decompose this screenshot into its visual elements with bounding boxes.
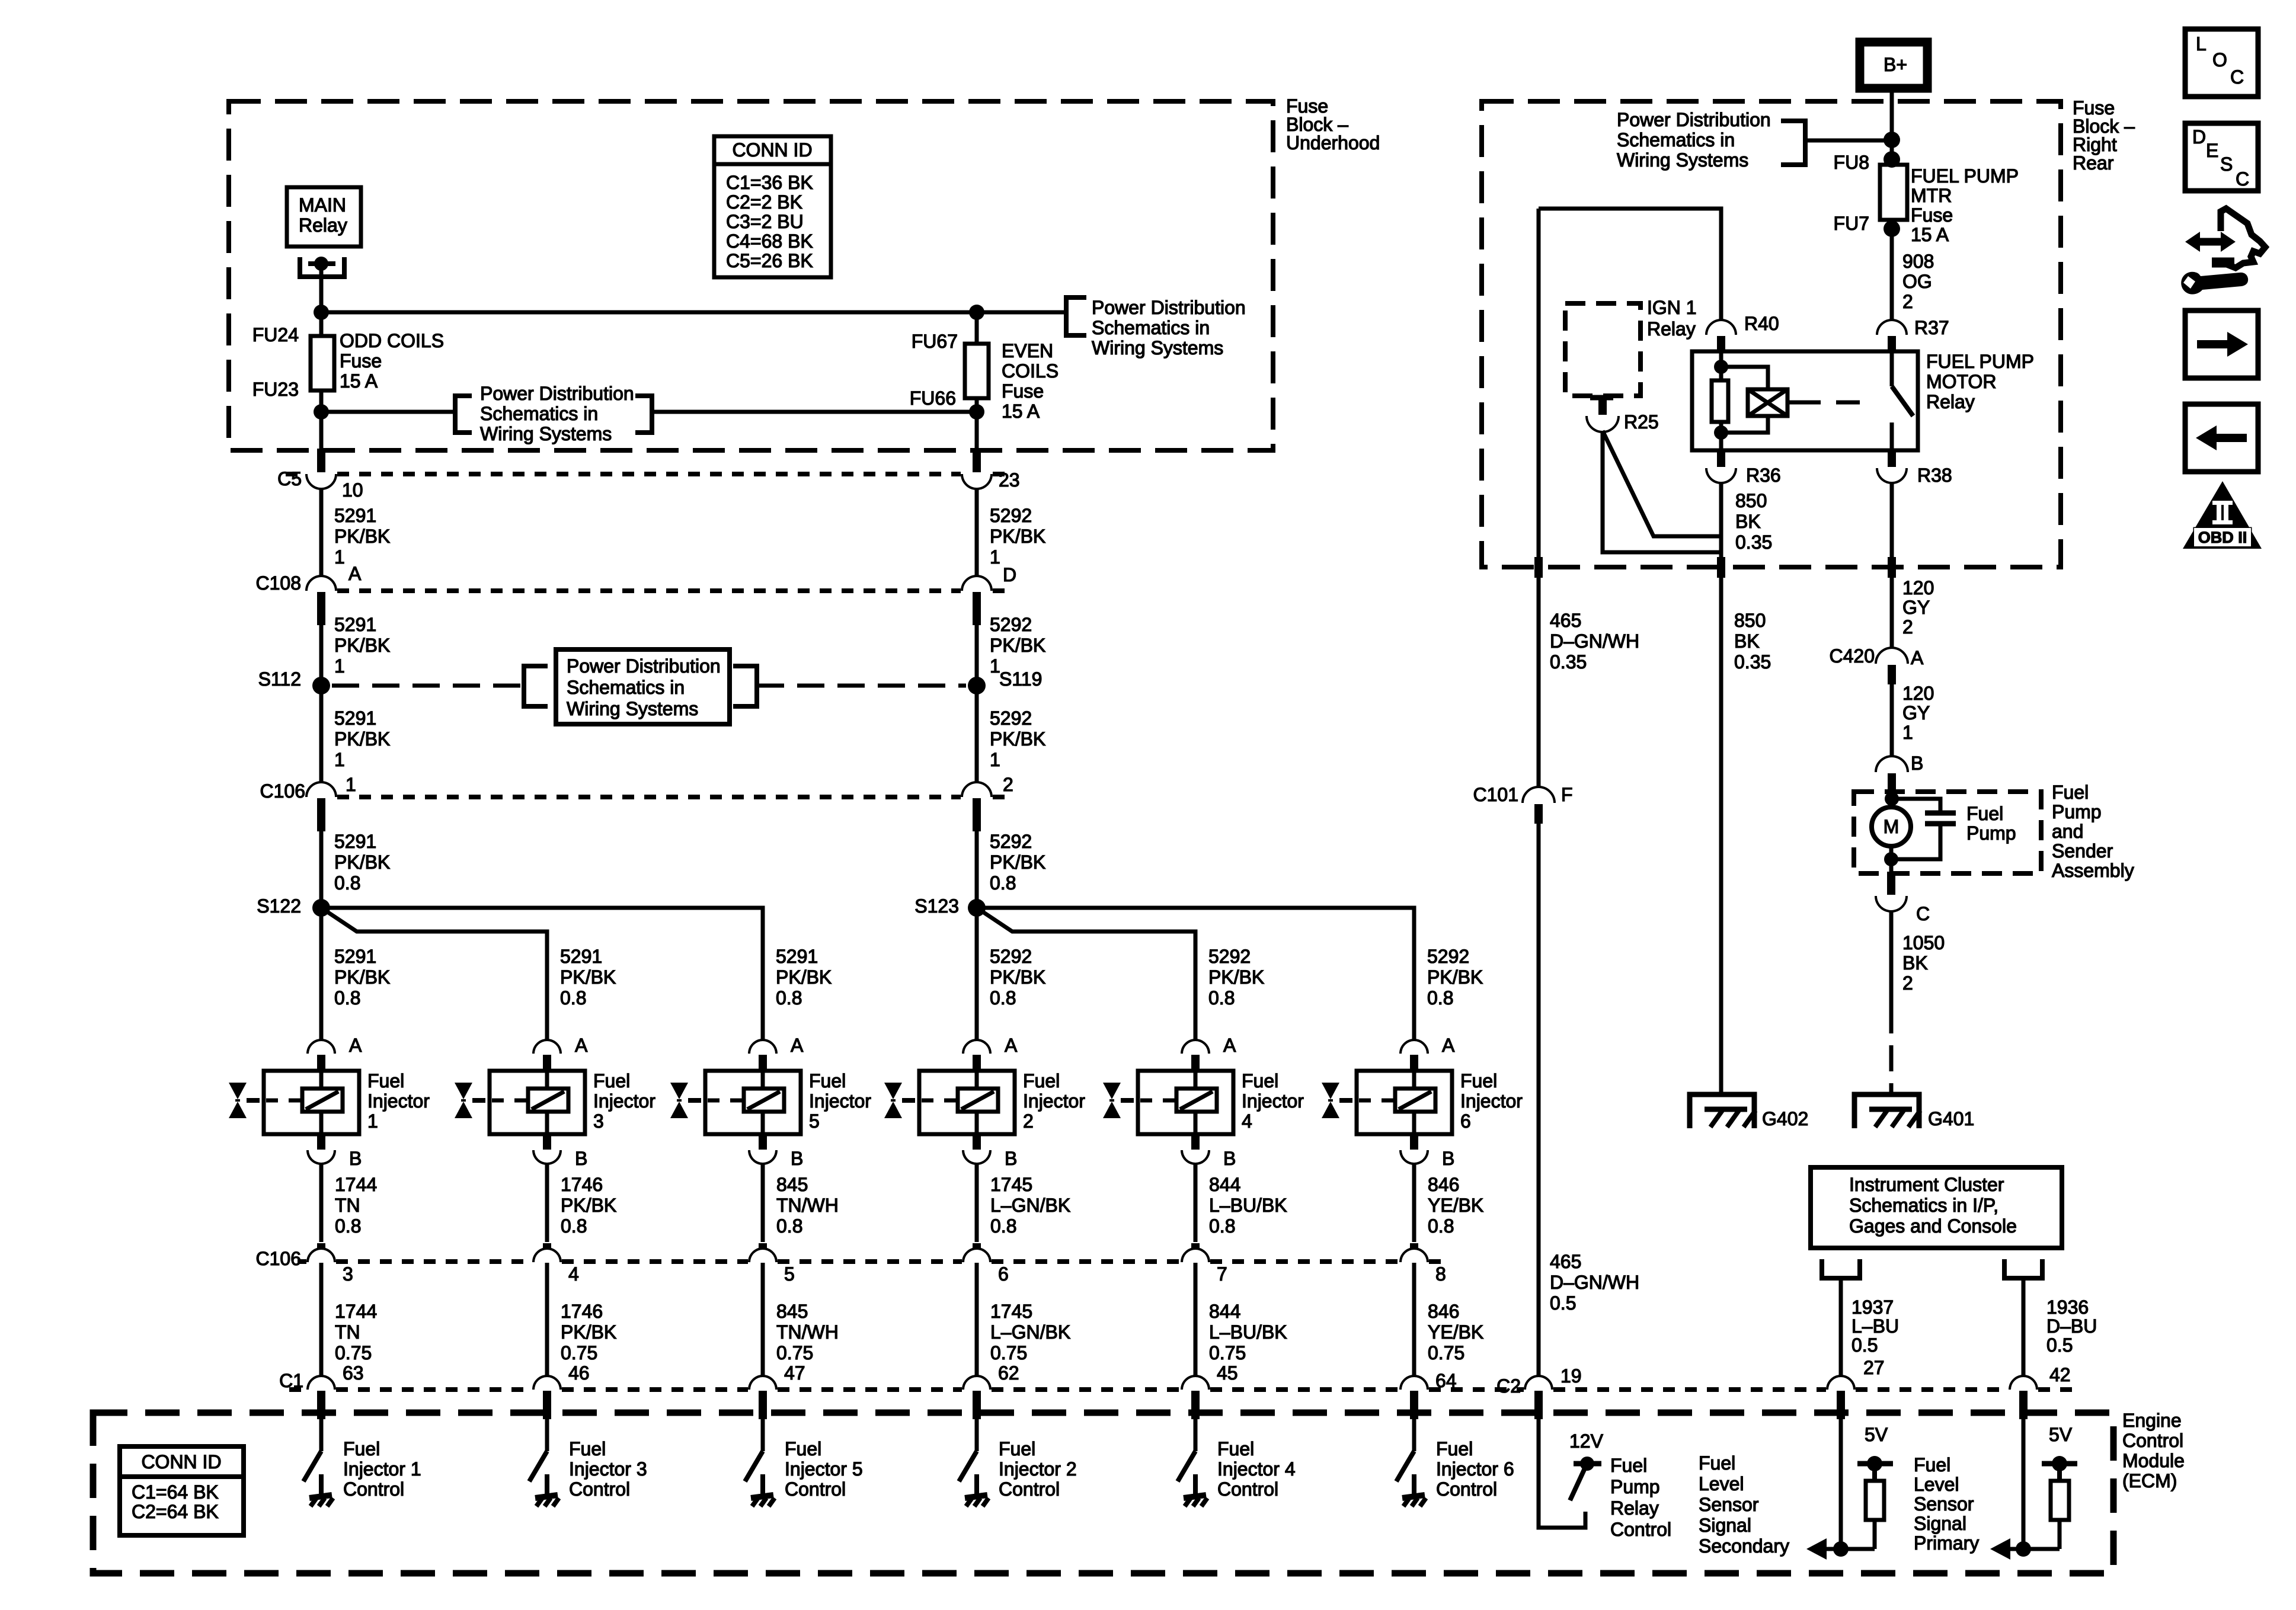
svg-text:PK/BK: PK/BK xyxy=(561,1321,616,1343)
svg-text:FU67: FU67 xyxy=(912,331,958,352)
svg-text:1746: 1746 xyxy=(561,1301,603,1322)
svg-text:GY: GY xyxy=(1902,702,1930,724)
svg-text:B: B xyxy=(575,1148,587,1169)
svg-text:Primary: Primary xyxy=(1914,1532,1979,1554)
svg-text:D–GN/WH: D–GN/WH xyxy=(1550,1272,1639,1293)
svg-text:846: 846 xyxy=(1428,1174,1459,1195)
svg-text:C4=68 BK: C4=68 BK xyxy=(726,231,813,252)
connector C1 pin 46 stub xyxy=(543,1391,551,1419)
svg-text:5291: 5291 xyxy=(334,505,376,526)
connector C106 pin 4 arc xyxy=(535,1250,559,1262)
svg-text:B: B xyxy=(1223,1148,1236,1169)
connector C108 pin A arc xyxy=(308,577,335,591)
svg-text:Injector: Injector xyxy=(1242,1090,1304,1112)
svg-text:PK/BK: PK/BK xyxy=(990,635,1045,656)
svg-text:23: 23 xyxy=(999,469,1020,491)
svg-text:19: 19 xyxy=(1560,1365,1582,1387)
svg-text:0.75: 0.75 xyxy=(776,1342,813,1363)
CONN ID table ECM xyxy=(120,1446,244,1535)
svg-text:L–GN/BK: L–GN/BK xyxy=(990,1321,1070,1343)
svg-text:63: 63 xyxy=(343,1362,364,1384)
wire 5291 C5 to C108 xyxy=(319,488,324,577)
connector C2 pin 42 stub xyxy=(2019,1391,2028,1419)
svg-text:Fuel: Fuel xyxy=(2052,782,2089,803)
svg-text:BK: BK xyxy=(1734,630,1760,652)
fuel pump and sender assembly dashed box xyxy=(1854,792,2041,873)
svg-text:Power Distribution: Power Distribution xyxy=(480,383,634,404)
svg-text:15 A: 15 A xyxy=(1911,224,1949,245)
fuel pump relay coil xyxy=(1748,389,1787,416)
svg-text:C108: C108 xyxy=(256,572,302,594)
off-page reference bracket power distribution left xyxy=(455,396,472,433)
svg-text:844: 844 xyxy=(1209,1174,1240,1195)
wire 1050 BK 2 xyxy=(1889,910,1894,1007)
fuel injector 5 control driver wire xyxy=(761,1419,765,1451)
svg-text:1: 1 xyxy=(334,546,345,568)
svg-text:B: B xyxy=(1442,1148,1454,1169)
wire 465 D-GN/WH from ignition relay feed xyxy=(1537,209,1541,562)
svg-text:5292: 5292 xyxy=(1427,946,1469,967)
connector C1 pin 64 arc xyxy=(1402,1377,1427,1390)
svg-text:C: C xyxy=(1916,903,1930,924)
connector C5 pin 23 cup xyxy=(963,474,990,488)
dashed reference wire box to S119 xyxy=(757,684,966,688)
svg-text:1744: 1744 xyxy=(335,1174,377,1195)
svg-text:A: A xyxy=(1005,1035,1018,1056)
svg-text:C2=2 BK: C2=2 BK xyxy=(726,191,802,213)
svg-text:Assembly: Assembly xyxy=(2052,860,2134,881)
svg-text:PK/BK: PK/BK xyxy=(990,966,1045,988)
connector C108 pin A stub xyxy=(317,592,325,625)
svg-text:S112: S112 xyxy=(258,668,301,690)
splice S112 xyxy=(312,677,330,694)
connector R37 stub xyxy=(1888,336,1896,351)
fuel injector 3 body xyxy=(490,1071,585,1134)
fuel injector 4 coil xyxy=(1176,1089,1217,1112)
svg-text:BK: BK xyxy=(1902,952,1928,974)
svg-text:C1=36 BK: C1=36 BK xyxy=(726,172,813,193)
fuel injector 6 body xyxy=(1357,1071,1452,1134)
svg-text:Fuel: Fuel xyxy=(1914,1454,1950,1475)
svg-text:PK/BK: PK/BK xyxy=(560,966,616,988)
svg-text:R37: R37 xyxy=(1914,317,1949,338)
fuel injector 4 body xyxy=(1138,1071,1233,1134)
fuel pump relay control pin hook xyxy=(1539,1419,1585,1528)
svg-text:L–BU/BK: L–BU/BK xyxy=(1209,1195,1287,1216)
reference bracket left of power distribution box xyxy=(524,666,548,706)
svg-text:1: 1 xyxy=(334,749,345,770)
svg-text:FUEL PUMP: FUEL PUMP xyxy=(1926,351,2034,372)
svg-text:(ECM): (ECM) xyxy=(2122,1470,2177,1491)
connector C108 pin D stub xyxy=(973,592,981,625)
svg-text:L–GN/BK: L–GN/BK xyxy=(990,1195,1070,1216)
fuel injector 2 pin A cup xyxy=(964,1041,989,1054)
svg-text:Schematics in: Schematics in xyxy=(480,403,598,424)
svg-text:Level: Level xyxy=(1914,1474,1959,1495)
svg-text:Injector 3: Injector 3 xyxy=(569,1458,647,1480)
ground G402 xyxy=(1690,1094,1754,1128)
svg-text:PK/BK: PK/BK xyxy=(561,1195,616,1216)
svg-text:PK/BK: PK/BK xyxy=(334,526,390,547)
svg-text:Injector 2: Injector 2 xyxy=(999,1458,1077,1480)
connector C5 pin 23 stub xyxy=(973,449,981,472)
svg-text:PK/BK: PK/BK xyxy=(1208,966,1264,988)
svg-text:Schematics in I/P,: Schematics in I/P, xyxy=(1849,1195,1998,1216)
svg-text:47: 47 xyxy=(784,1362,805,1384)
svg-text:Wiring Systems: Wiring Systems xyxy=(480,423,612,444)
fuel injector 4 pin B stub xyxy=(1191,1134,1200,1150)
svg-text:2: 2 xyxy=(1003,774,1013,795)
svg-text:YE/BK: YE/BK xyxy=(1428,1321,1483,1343)
connector C2 pin 19 stub xyxy=(1534,1391,1543,1419)
svg-text:465: 465 xyxy=(1550,1251,1581,1272)
svg-text:10: 10 xyxy=(342,479,363,501)
svg-text:TN: TN xyxy=(335,1195,360,1216)
svg-text:6: 6 xyxy=(1460,1110,1471,1132)
pullup resistor primary xyxy=(2057,1464,2062,1481)
connector R36 cup xyxy=(1707,468,1735,482)
svg-text:D–BU: D–BU xyxy=(2046,1315,2097,1337)
fuel injector 2 nozzle valve symbol xyxy=(884,1083,902,1099)
svg-text:465: 465 xyxy=(1550,610,1581,631)
connector fuel pump pin B arc xyxy=(1877,757,1907,772)
CONN ID table underhood xyxy=(714,136,831,277)
svg-text:Signal: Signal xyxy=(1914,1513,1966,1534)
fuel injector 4 pin A cup xyxy=(1183,1041,1208,1054)
svg-text:Control: Control xyxy=(569,1478,630,1500)
svg-text:5291: 5291 xyxy=(334,614,376,635)
fuel injector 5 coil xyxy=(744,1089,784,1112)
svg-text:3: 3 xyxy=(593,1110,604,1132)
fuel injector 6 control driver wire xyxy=(1412,1419,1416,1451)
svg-text:12V: 12V xyxy=(1569,1430,1604,1452)
wire reference to FU66 junction xyxy=(652,410,977,414)
connector C420 stub xyxy=(1888,665,1896,684)
connector C106 pin 7 arc xyxy=(1183,1250,1208,1262)
svg-text:D: D xyxy=(2192,126,2206,148)
connector C5 pin 10 stub xyxy=(317,449,325,472)
svg-text:0.75: 0.75 xyxy=(1209,1342,1246,1363)
connector C106 pin 2 arc xyxy=(963,783,990,797)
svg-text:0.8: 0.8 xyxy=(1209,1215,1235,1237)
svg-text:850: 850 xyxy=(1735,490,1767,511)
svg-text:0.35: 0.35 xyxy=(1734,651,1771,673)
connector C1 pin 64 stub xyxy=(1410,1391,1418,1419)
svg-text:TN/WH: TN/WH xyxy=(776,1321,839,1343)
node fuel pump return junction xyxy=(1889,846,1894,872)
wire 1937 L-BU 0.5 xyxy=(1839,1278,1843,1376)
svg-text:0.75: 0.75 xyxy=(335,1342,372,1363)
fuel injector 4 control ground xyxy=(1193,1474,1198,1494)
connector C106 pin 2 stub xyxy=(973,798,981,831)
5V supply bar secondary xyxy=(1857,1461,1893,1467)
motor M fuel pump xyxy=(1872,807,1911,846)
connector fuel pump pin B stub xyxy=(1888,773,1896,792)
fuel injector 5 pin A cup xyxy=(750,1041,775,1054)
reference bracket right of power distribution box xyxy=(733,666,757,706)
svg-text:Power Distribution: Power Distribution xyxy=(1617,109,1771,130)
svg-text:Fuel: Fuel xyxy=(1699,1452,1735,1474)
svg-text:5292: 5292 xyxy=(990,831,1032,852)
fuel pump relay control switch blade xyxy=(1570,1468,1585,1500)
connector C106 pin 3 stub xyxy=(317,1243,325,1260)
svg-text:0.75: 0.75 xyxy=(990,1342,1027,1363)
wire even coils junction to power distribution reference xyxy=(977,311,1066,315)
svg-text:Injector: Injector xyxy=(1023,1090,1085,1112)
svg-text:15 A: 15 A xyxy=(1002,401,1040,422)
engine control module dashed enclosure xyxy=(93,1413,2113,1573)
wire 465 C101 to C2 pin 19 xyxy=(1537,824,1541,1376)
svg-text:1937: 1937 xyxy=(1851,1297,1894,1318)
reference box power distribution wiring systems xyxy=(556,649,730,724)
svg-text:CONN ID: CONN ID xyxy=(732,139,812,161)
fuel injector 1 nozzle valve symbol xyxy=(229,1083,247,1099)
dashed reference wire S112 to box xyxy=(332,684,524,688)
fuel injector 2 control driver wire xyxy=(975,1419,979,1451)
fuse FU67 EVEN COILS 15A xyxy=(975,312,979,344)
connector C106 pin 5 arc xyxy=(750,1250,775,1262)
svg-text:R36: R36 xyxy=(1746,465,1781,486)
svg-text:Pump: Pump xyxy=(1966,822,2016,844)
svg-text:5: 5 xyxy=(809,1110,820,1132)
fuel injector 2 control switch xyxy=(959,1451,977,1481)
svg-text:PK/BK: PK/BK xyxy=(334,852,390,873)
connector C106 pin 7 stub xyxy=(1191,1243,1200,1260)
svg-text:MOTOR: MOTOR xyxy=(1926,371,1997,392)
connector R40 arc xyxy=(1707,321,1735,335)
fuel injector 2 coil xyxy=(958,1089,998,1112)
svg-text:B: B xyxy=(1911,753,1923,774)
icon component locator wrench xyxy=(2221,209,2265,268)
svg-text:0.8: 0.8 xyxy=(990,987,1016,1009)
connector fuel pump pin C stub xyxy=(1887,872,1895,895)
5V supply bar primary xyxy=(2042,1461,2077,1467)
node FU66 bottom junction xyxy=(969,404,984,420)
svg-text:A: A xyxy=(575,1035,588,1056)
connector C106 pin 6 arc xyxy=(964,1250,989,1262)
fuel injector 5 pin A stub xyxy=(759,1055,767,1071)
svg-text:C5: C5 xyxy=(277,468,302,489)
svg-text:0.35: 0.35 xyxy=(1550,651,1587,673)
icon OBD II triangle xyxy=(2183,481,2262,549)
wire junction down through border to C5 xyxy=(319,412,324,452)
connector C2 pin 27 arc xyxy=(1828,1377,1853,1390)
fuel injector 2 pin B stub xyxy=(973,1134,981,1150)
fuel pump relay control contact xyxy=(1574,1461,1601,1467)
wire R36 to G402 drop xyxy=(1719,482,1723,562)
svg-text:Wiring Systems: Wiring Systems xyxy=(1092,337,1223,359)
wire S122 to fuel injector 1 xyxy=(319,908,324,1042)
svg-text:Injector: Injector xyxy=(1460,1090,1523,1112)
svg-text:5291: 5291 xyxy=(560,946,602,967)
wire 5291 C106 to S122 xyxy=(319,831,324,908)
svg-text:and: and xyxy=(2052,821,2083,842)
connector C106 pin 1 stub xyxy=(317,798,325,831)
svg-text:1: 1 xyxy=(334,655,345,677)
connector C1 pin 45 arc xyxy=(1183,1377,1208,1390)
fuel injector 3 coil xyxy=(528,1089,568,1112)
svg-text:1: 1 xyxy=(367,1110,378,1132)
off-page reference bracket power distribution left-close xyxy=(635,396,652,433)
svg-text:5: 5 xyxy=(784,1263,795,1285)
wire R25 to ground drop xyxy=(1603,431,1721,552)
svg-text:PK/BK: PK/BK xyxy=(334,966,390,988)
wire 1936 D-BU 0.5 xyxy=(2022,1278,2026,1376)
svg-text:Pump: Pump xyxy=(2052,801,2102,822)
fuel injector 1 pin A stub xyxy=(317,1055,325,1071)
svg-text:1050: 1050 xyxy=(1902,932,1945,953)
svg-text:0.8: 0.8 xyxy=(335,1215,361,1237)
wire S123 to fuel injector 2 xyxy=(975,908,979,1042)
svg-text:A: A xyxy=(349,1035,362,1056)
svg-text:0.5: 0.5 xyxy=(1550,1292,1576,1314)
svg-text:C1: C1 xyxy=(279,1370,303,1391)
svg-text:C3=2 BU: C3=2 BU xyxy=(726,211,804,232)
svg-text:MAIN: MAIN xyxy=(299,194,346,216)
svg-text:Fuel: Fuel xyxy=(593,1070,630,1092)
connector R38 stub xyxy=(1888,450,1896,467)
svg-text:PK/BK: PK/BK xyxy=(990,526,1045,547)
svg-text:3: 3 xyxy=(343,1263,353,1285)
wires C106 to C1 ECM connector xyxy=(319,1263,324,1376)
svg-text:Fuel: Fuel xyxy=(1023,1070,1060,1092)
fuse block underhood dashed enclosure xyxy=(229,101,1273,450)
fuel injector 5 control ground xyxy=(760,1474,765,1494)
fuel injector 1 pin A cup xyxy=(309,1041,334,1054)
connector C101 stub xyxy=(1534,804,1543,824)
wire S123 branch to fuel injector 4 xyxy=(980,910,1195,1042)
fuel injector 1 internal dashed link xyxy=(266,1099,302,1103)
connector C1 pin 62 stub xyxy=(973,1391,981,1419)
svg-text:1: 1 xyxy=(346,774,356,795)
svg-text:1744: 1744 xyxy=(335,1301,377,1322)
svg-text:0.8: 0.8 xyxy=(334,872,360,894)
svg-text:Control: Control xyxy=(343,1478,404,1500)
svg-text:Injector: Injector xyxy=(593,1090,655,1112)
svg-text:C: C xyxy=(2230,66,2244,88)
svg-text:A: A xyxy=(348,563,362,584)
svg-text:1746: 1746 xyxy=(561,1174,603,1195)
relay fuel pump motor relay box xyxy=(1692,351,1918,450)
svg-text:C1=64 BK: C1=64 BK xyxy=(132,1481,219,1503)
svg-text:5V: 5V xyxy=(2049,1424,2073,1445)
svg-text:Control: Control xyxy=(1436,1478,1497,1500)
wire MAIN relay to bus xyxy=(319,264,324,312)
svg-text:0.8: 0.8 xyxy=(334,987,360,1009)
svg-text:PK/BK: PK/BK xyxy=(990,852,1045,873)
connector R40 stub xyxy=(1717,336,1725,351)
svg-text:L–BU/BK: L–BU/BK xyxy=(1209,1321,1287,1343)
svg-text:5292: 5292 xyxy=(990,946,1032,967)
svg-text:M: M xyxy=(1884,816,1900,837)
fuel injector 4 nozzle valve symbol xyxy=(1103,1083,1121,1099)
svg-text:5291: 5291 xyxy=(334,946,376,967)
svg-text:FUEL PUMP: FUEL PUMP xyxy=(1911,165,2019,187)
fuel pump relay switch xyxy=(1890,351,1894,386)
svg-text:C2=64 BK: C2=64 BK xyxy=(132,1501,219,1522)
svg-text:844: 844 xyxy=(1209,1301,1240,1322)
fuel injector 1 pin B cup xyxy=(309,1150,334,1163)
svg-text:EVEN: EVEN xyxy=(1002,340,1053,361)
icon LOC box xyxy=(2185,29,2258,97)
svg-text:Power Distribution: Power Distribution xyxy=(567,655,721,677)
svg-text:B: B xyxy=(791,1148,803,1169)
wire FU66 to junction xyxy=(975,398,979,412)
svg-text:0.8: 0.8 xyxy=(1427,987,1453,1009)
svg-text:FU66: FU66 xyxy=(910,388,956,409)
svg-text:4: 4 xyxy=(568,1263,579,1285)
svg-text:Level: Level xyxy=(1699,1473,1744,1494)
svg-text:846: 846 xyxy=(1428,1301,1459,1322)
splice S123 xyxy=(968,899,986,917)
connector fuel pump pin C cup xyxy=(1877,896,1905,910)
node FU7 junction xyxy=(1884,220,1900,237)
svg-text:Relay: Relay xyxy=(299,215,347,236)
connector C5 pin 10 cup xyxy=(308,474,335,488)
fuel injector 1 control driver wire xyxy=(319,1419,324,1451)
wire 5291 C108 to S112 xyxy=(319,625,324,686)
connector C106 pin 8 stub xyxy=(1410,1243,1418,1260)
wire R25 to R36 link xyxy=(1603,431,1721,536)
svg-text:1: 1 xyxy=(990,749,1000,770)
svg-text:Control: Control xyxy=(785,1478,846,1500)
wire R40 feed from ignition relay xyxy=(1539,209,1721,321)
wire S122 branch to fuel injector 5 xyxy=(321,908,763,1042)
fuel injector 6 pin A cup xyxy=(1402,1041,1427,1054)
connector C108 pin D arc xyxy=(963,577,990,591)
svg-text:Fuel: Fuel xyxy=(343,1438,380,1459)
connector R36 stub xyxy=(1717,450,1725,467)
connector R25 cup xyxy=(1588,416,1617,431)
wire FU23 to lower junction xyxy=(319,391,324,412)
svg-text:O: O xyxy=(2212,49,2227,71)
svg-text:0.5: 0.5 xyxy=(2046,1334,2073,1356)
fuel injector 3 pin A stub xyxy=(543,1055,551,1071)
pullup resistor secondary xyxy=(1872,1464,1877,1481)
svg-text:0.35: 0.35 xyxy=(1735,532,1772,553)
off-page reference bracket power distribution right xyxy=(1066,297,1086,335)
svg-text:6: 6 xyxy=(998,1263,1009,1285)
svg-text:OBD II: OBD II xyxy=(2198,529,2247,546)
svg-text:120: 120 xyxy=(1902,577,1934,598)
fuel injector 5 control switch xyxy=(745,1451,763,1481)
fuel pump relay coil return xyxy=(1721,416,1768,433)
svg-text:2: 2 xyxy=(1023,1110,1034,1132)
fuel injector 3 control driver wire xyxy=(545,1419,549,1451)
svg-text:C: C xyxy=(2236,168,2249,190)
svg-text:Wiring Systems: Wiring Systems xyxy=(1617,149,1748,171)
fuel injector 3 pin B cup xyxy=(535,1150,559,1163)
svg-text:0.8: 0.8 xyxy=(990,872,1016,894)
svg-text:Sender: Sender xyxy=(2052,840,2113,862)
connector C101 arc xyxy=(1524,788,1553,803)
connector C106 pin 5 stub xyxy=(759,1243,767,1260)
svg-text:Sensor: Sensor xyxy=(1914,1493,1974,1515)
svg-text:1936: 1936 xyxy=(2046,1297,2089,1318)
ground G401 xyxy=(1854,1094,1919,1128)
svg-text:FU7: FU7 xyxy=(1834,213,1869,234)
svg-text:PK/BK: PK/BK xyxy=(1427,966,1483,988)
wire 120 GY 1 to fuel pump xyxy=(1890,684,1894,757)
fuel injector 5 pin B stub xyxy=(759,1134,767,1150)
svg-text:Fuel: Fuel xyxy=(809,1070,846,1092)
svg-text:FU8: FU8 xyxy=(1834,152,1869,173)
svg-text:MTR: MTR xyxy=(1911,185,1952,206)
svg-text:Pump: Pump xyxy=(1610,1476,1660,1497)
svg-text:FU23: FU23 xyxy=(252,379,299,400)
svg-text:C2: C2 xyxy=(1496,1375,1521,1397)
svg-text:Fuel: Fuel xyxy=(1610,1455,1647,1476)
